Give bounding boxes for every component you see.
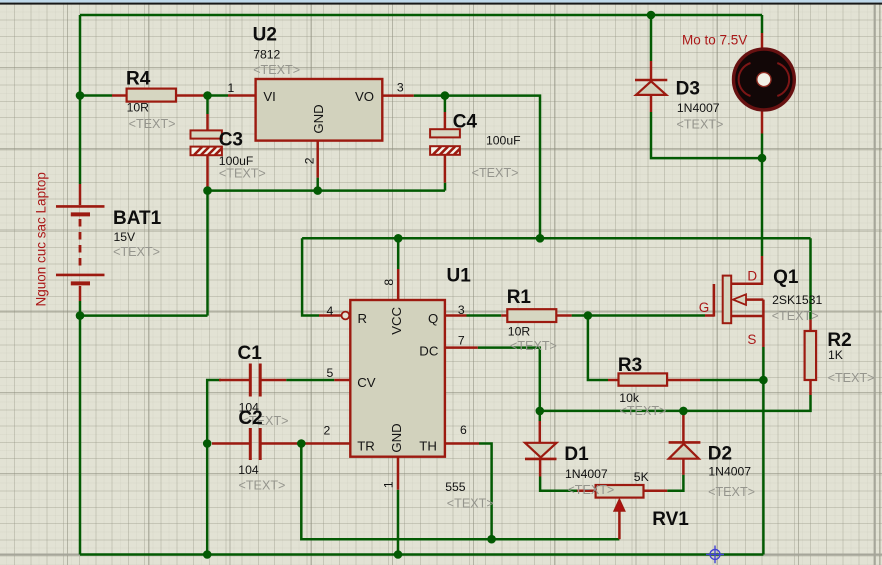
svg-text:R1: R1 xyxy=(507,287,532,308)
pin R2 bottom lead xyxy=(809,380,812,395)
capacitor C3 xyxy=(191,130,222,155)
svg-text:<TEXT>: <TEXT> xyxy=(828,371,875,385)
pin number U2.2 xyxy=(303,157,317,164)
sheet right gray border xyxy=(874,5,876,565)
svg-text:2: 2 xyxy=(303,157,317,164)
svg-text:6: 6 xyxy=(460,423,467,437)
svg-text:<TEXT>: <TEXT> xyxy=(620,404,667,418)
wire battery minus down left column xyxy=(79,301,82,555)
svg-text:3: 3 xyxy=(458,303,465,317)
label D2 xyxy=(708,444,755,499)
wire pin3 to R1 xyxy=(467,314,502,317)
label C2 xyxy=(238,408,285,492)
wire C2 node down to bottom rail xyxy=(206,444,209,555)
svg-text:15V: 15V xyxy=(114,230,137,244)
pin R4 right lead xyxy=(176,94,206,97)
sheet top blue bar xyxy=(0,0,882,3)
wire C1 left corner down to C2 node xyxy=(207,380,221,444)
svg-text:U2: U2 xyxy=(253,24,277,45)
pin R1 right lead xyxy=(556,314,571,317)
pin R4 left lead xyxy=(112,94,127,97)
wire TR node down to wiper net xyxy=(301,444,619,540)
pin U1 pin5 stub xyxy=(334,379,350,382)
svg-text:<TEXT>: <TEXT> xyxy=(253,63,300,77)
pin number U1.2 xyxy=(324,424,331,438)
pin R3 right lead xyxy=(667,379,700,382)
pin number U1.1 xyxy=(381,481,395,488)
resistor R2 xyxy=(805,331,817,380)
pin RV1 wiper line xyxy=(618,510,621,539)
pin number U2.1 xyxy=(228,81,235,95)
pin D2 top lead xyxy=(682,413,685,442)
pin name GND (U1) xyxy=(389,423,404,452)
junction VCC rail / U2 output xyxy=(536,234,545,243)
svg-text:1N4007: 1N4007 xyxy=(677,101,720,115)
label R1 xyxy=(507,287,557,353)
wire R3 right to source node xyxy=(700,379,763,382)
pin U1 pin7 stub xyxy=(445,346,478,349)
pin C2 left lead xyxy=(212,442,249,445)
diode D3 xyxy=(635,80,667,95)
svg-text:8: 8 xyxy=(382,279,396,286)
svg-text:<TEXT>: <TEXT> xyxy=(472,166,519,180)
label C3 xyxy=(219,129,266,180)
pin battery bottom xyxy=(79,286,82,301)
sheet bottom gray border xyxy=(0,554,882,556)
pin number U1.6 xyxy=(460,423,467,437)
diode D1 xyxy=(525,443,557,459)
label R4 xyxy=(126,68,176,131)
pin letter D xyxy=(747,268,757,283)
wire C4 top link xyxy=(444,96,447,112)
wire motor top drop xyxy=(761,15,764,33)
pin battery top xyxy=(79,184,82,205)
pin number U1.7 xyxy=(458,334,465,348)
pin C4 top lead xyxy=(444,112,447,129)
label U1 xyxy=(445,265,494,510)
label U2 xyxy=(253,24,301,77)
svg-text:S: S xyxy=(747,332,756,347)
pin Q1 source vertical xyxy=(762,300,765,347)
label R3 xyxy=(618,355,667,418)
svg-text:VCC: VCC xyxy=(389,306,404,334)
pin letter G xyxy=(699,300,710,315)
pin U2 pin2 stub xyxy=(316,141,319,178)
junction bottom rail / pin1 xyxy=(394,550,403,559)
svg-text:2: 2 xyxy=(324,424,331,438)
svg-text:R3: R3 xyxy=(618,355,642,376)
pin U2 pin3 stub xyxy=(382,94,413,97)
wire battery node to R4 xyxy=(80,94,112,97)
svg-text:<TEXT>: <TEXT> xyxy=(677,118,724,132)
svg-text:C4: C4 xyxy=(453,111,478,132)
wire battery minus to ground rail xyxy=(80,314,208,317)
timer U1 555 xyxy=(342,300,445,457)
svg-text:Nguon cuc sac Laptop: Nguon cuc sac Laptop xyxy=(34,172,49,306)
junction motor bottom / D3 xyxy=(758,154,767,163)
svg-text:10R: 10R xyxy=(508,325,531,339)
sheet top black border xyxy=(0,3,882,5)
pin number U1.8 xyxy=(382,279,396,286)
pin U1 pin8 stub xyxy=(397,269,400,300)
pin name R xyxy=(358,311,368,326)
pin Q1 source arrow line xyxy=(745,298,763,301)
pin D1 top lead xyxy=(539,421,542,443)
capacitor C2 xyxy=(250,428,260,460)
wire C1 right to pin5 xyxy=(286,379,334,382)
pin U1 pin3 stub xyxy=(445,314,467,317)
pin Q1 source bottom stub xyxy=(731,315,763,318)
svg-text:D3: D3 xyxy=(676,78,700,99)
capacitor C4 xyxy=(430,129,460,155)
label RV1 xyxy=(634,470,689,530)
wire VCC rail above U1 xyxy=(302,237,810,240)
wire U1 pin7 right and down xyxy=(478,348,540,421)
pin name DC xyxy=(419,343,439,358)
junction discharge rail / D2 xyxy=(679,407,688,416)
label BAT1 xyxy=(113,208,162,259)
svg-text:BAT1: BAT1 xyxy=(113,208,162,229)
junction U2 out / C4 xyxy=(441,91,450,100)
svg-text:1N4007: 1N4007 xyxy=(565,467,608,481)
wire U2 pin2 drop green xyxy=(316,178,319,191)
pin number U1.5 xyxy=(327,366,334,380)
junction pin7 / D1 xyxy=(536,407,545,416)
regulator U2 7812 xyxy=(256,79,383,141)
wire U1 pin1 green part xyxy=(397,490,400,555)
pin C4 bottom lead xyxy=(444,156,447,183)
junction pin6 / wiper net xyxy=(487,535,496,544)
pin C1 right lead xyxy=(262,379,287,382)
svg-text:D2: D2 xyxy=(708,444,732,465)
motor "Mo to 7.5V" xyxy=(734,49,795,110)
svg-text:TR: TR xyxy=(357,439,375,454)
wire D3 cathode link to top rail xyxy=(650,15,653,61)
svg-text:1K: 1K xyxy=(828,348,843,362)
svg-text:D1: D1 xyxy=(564,444,589,465)
junction C2 right / TR xyxy=(297,439,306,448)
wire left column top (battery plus branch) xyxy=(79,15,82,184)
svg-text:<TEXT>: <TEXT> xyxy=(129,117,176,131)
svg-text:1: 1 xyxy=(381,481,395,488)
label D1 xyxy=(564,444,614,497)
label Nguon cuc sac Laptop xyxy=(34,172,49,306)
svg-text:555: 555 xyxy=(445,480,466,494)
pin number U1.3 xyxy=(458,303,465,317)
svg-text:<TEXT>: <TEXT> xyxy=(239,478,286,492)
pin name GND (U2) xyxy=(311,104,326,133)
pin U1 pin1 stub xyxy=(397,457,400,490)
svg-text:<TEXT>: <TEXT> xyxy=(510,339,557,353)
svg-text:GND: GND xyxy=(311,104,326,133)
pin Q1 gate stub xyxy=(705,314,714,317)
pin name TR xyxy=(357,439,375,454)
pin U1 pin2 stub xyxy=(303,442,350,445)
wire D3 anode down and right to motor bottom node xyxy=(651,112,762,158)
pin U1 pin4 stub xyxy=(319,314,341,317)
svg-text:10R: 10R xyxy=(127,100,150,114)
wire source column down to bottom rail xyxy=(762,347,765,555)
pin number U1.4 xyxy=(327,304,334,318)
svg-text:R4: R4 xyxy=(126,68,151,89)
pin C2 right lead xyxy=(262,442,304,445)
pin R1 left lead xyxy=(501,314,507,317)
pin R2 top lead xyxy=(809,320,812,331)
svg-text:104: 104 xyxy=(238,463,259,477)
diode D2 xyxy=(669,442,701,458)
pin name CV xyxy=(357,375,376,390)
svg-text:VO: VO xyxy=(355,89,374,104)
pin RV1 left lead xyxy=(577,490,595,493)
svg-text:4: 4 xyxy=(327,304,334,318)
junction C3 bottom / ground rail xyxy=(203,186,212,195)
pin D3 top lead xyxy=(650,61,653,79)
pin D3 bottom lead xyxy=(650,96,653,113)
battery BAT1 xyxy=(56,206,105,283)
svg-text:Mo to 7.5V: Mo to 7.5V xyxy=(682,32,747,47)
junction battery minus / ground link xyxy=(76,311,85,320)
svg-text:<TEXT>: <TEXT> xyxy=(708,485,755,499)
svg-text:R: R xyxy=(358,311,368,326)
junction R4 / C3 / U2 input xyxy=(203,91,212,100)
pin Q1 drain stub xyxy=(731,256,762,284)
potentiometer RV1 xyxy=(596,485,644,511)
pin U2 pin1 stub xyxy=(228,94,256,97)
label C4 xyxy=(453,111,521,180)
svg-text:5K: 5K xyxy=(634,470,649,484)
svg-text:GND: GND xyxy=(389,423,404,452)
wire C4 bottom corner xyxy=(444,183,447,191)
wire bottom ground rail xyxy=(80,553,763,556)
svg-text:1N4007: 1N4007 xyxy=(708,465,751,479)
junction source / R3 xyxy=(759,376,768,385)
wire C3 node to U2 pin1 xyxy=(205,94,228,97)
svg-text:Q: Q xyxy=(428,311,438,326)
svg-text:D: D xyxy=(747,268,757,283)
resistor R3 xyxy=(619,373,668,385)
wire motor bottom to drain column xyxy=(761,134,764,257)
svg-text:U1: U1 xyxy=(447,265,472,286)
junction U2 gnd / ground rail xyxy=(313,186,322,195)
svg-text:C3: C3 xyxy=(219,129,243,150)
pin D1 bottom lead xyxy=(539,459,542,476)
svg-text:3: 3 xyxy=(397,81,404,95)
wire R1 to Q1 gate xyxy=(572,314,705,317)
svg-text:DC: DC xyxy=(419,343,439,358)
pin D2 bottom lead xyxy=(682,459,685,475)
svg-text:C1: C1 xyxy=(238,343,263,364)
svg-text:100uF: 100uF xyxy=(486,133,521,147)
svg-text:<TEXT>: <TEXT> xyxy=(113,245,160,259)
svg-text:10k: 10k xyxy=(619,391,640,405)
wire U1 pin8 drop xyxy=(397,238,400,269)
svg-text:Q1: Q1 xyxy=(773,267,799,288)
wire top rail from left column to motor column xyxy=(80,14,762,17)
svg-text:<TEXT>: <TEXT> xyxy=(219,166,266,180)
pin R3 left lead xyxy=(608,379,619,382)
wire ground link down from C3 node xyxy=(206,191,209,316)
wire VCC rail left corner to pin4 xyxy=(302,238,319,315)
pin motor bottom xyxy=(761,109,764,134)
pin motor top xyxy=(761,33,764,51)
svg-text:5: 5 xyxy=(327,366,334,380)
pin name VI xyxy=(263,89,275,104)
svg-text:2SK1531: 2SK1531 xyxy=(772,293,822,307)
pin name VCC xyxy=(389,306,404,334)
svg-text:TH: TH xyxy=(419,439,437,454)
wire C3 top link xyxy=(206,96,209,115)
label R2 xyxy=(827,330,874,385)
svg-text:RV1: RV1 xyxy=(652,509,689,530)
svg-text:<TEXT>: <TEXT> xyxy=(567,483,614,497)
wire U2 output to VCC corner xyxy=(414,96,540,239)
pin C3 top lead xyxy=(206,114,209,130)
pin name VO xyxy=(355,89,374,104)
svg-text:7812: 7812 xyxy=(253,47,280,61)
origin marker xyxy=(706,546,724,564)
pin letter S xyxy=(747,332,756,347)
transistor Q1 2SK1531 xyxy=(714,276,746,324)
pin name TH xyxy=(419,439,437,454)
capacitor C1 xyxy=(250,364,260,397)
pin C1 left lead xyxy=(219,379,249,382)
wire D1 anode to RV1 left xyxy=(540,477,577,491)
svg-text:7: 7 xyxy=(458,334,465,348)
wire U1 pin6 down to wiper net xyxy=(479,444,492,540)
svg-text:C2: C2 xyxy=(238,408,262,429)
pin U1 pin6 stub xyxy=(445,442,479,445)
junction VCC rail / pin8 xyxy=(394,234,403,243)
label D3 xyxy=(676,78,724,131)
wire VCC rail right corner to R2 top xyxy=(809,238,812,319)
svg-text:1: 1 xyxy=(228,81,235,95)
resistor R1 xyxy=(507,309,556,322)
wire D2 anode to RV1 right xyxy=(667,475,683,491)
pin number U2.3 xyxy=(397,81,404,95)
svg-text:<TEXT>: <TEXT> xyxy=(772,309,819,323)
label C1 xyxy=(238,343,289,428)
svg-text:CV: CV xyxy=(357,375,376,390)
label Q1 xyxy=(772,267,823,323)
resistor R4 xyxy=(127,89,176,102)
svg-text:VI: VI xyxy=(263,89,275,104)
junction C1 / C2 left xyxy=(203,439,212,448)
label Mo to 7.5V xyxy=(682,32,747,47)
pin RV1 right lead xyxy=(644,490,668,493)
svg-text:<TEXT>: <TEXT> xyxy=(447,497,494,511)
junction battery plus / R4 xyxy=(76,91,85,100)
pin C3 bottom lead xyxy=(206,156,209,188)
junction R1 / gate / R3 xyxy=(584,311,593,320)
pin name Q xyxy=(428,311,438,326)
wire ground rail under U2 xyxy=(208,189,446,192)
wire discharge rail to R2 bottom xyxy=(540,395,811,411)
svg-text:G: G xyxy=(699,300,710,315)
junction top rail / D3 xyxy=(647,11,656,20)
junction bottom rail / C2 column xyxy=(203,550,212,559)
wire R1 node down to R3 left xyxy=(588,316,608,381)
